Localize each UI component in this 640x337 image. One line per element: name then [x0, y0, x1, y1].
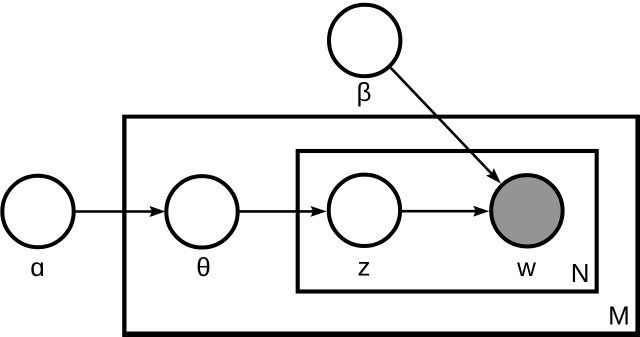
arrowhead into w from beta: [486, 168, 501, 183]
svg-text:z: z: [358, 252, 371, 282]
node w (observed, shaded): [491, 175, 562, 246]
arrowhead into w: [473, 206, 489, 217]
plate M (outer rectangle, right/bottom borders clipped at canvas edge): [122, 115, 640, 337]
svg-text:ɑ: ɑ: [30, 252, 44, 282]
node alpha: [2, 176, 73, 247]
arrowhead into z: [311, 206, 327, 217]
svg-text:M: M: [608, 301, 630, 331]
plate N (inner rectangle): [298, 151, 597, 292]
svg-text:β: β: [357, 77, 372, 107]
wire z->w: [402, 210, 477, 213]
arrowhead into theta: [150, 206, 166, 217]
node beta: [329, 5, 400, 76]
svg-text:w: w: [516, 252, 536, 282]
svg-text:N: N: [571, 258, 590, 288]
node theta: [166, 176, 237, 247]
node z: [329, 175, 400, 246]
wire beta->w (diagonal): [391, 68, 493, 175]
wire theta->z: [240, 210, 315, 213]
wire alpha->theta: [76, 210, 154, 213]
svg-text:θ: θ: [196, 252, 210, 282]
